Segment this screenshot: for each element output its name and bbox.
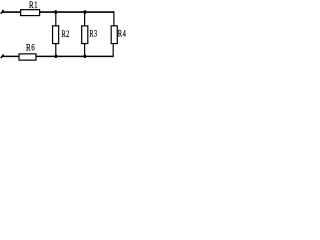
svg-text:R2: R2 [62, 29, 70, 40]
svg-text:R6: R6 [26, 42, 35, 52]
svg-text:R3: R3 [90, 28, 98, 39]
label R2 [62, 29, 70, 40]
label R6 [26, 42, 35, 52]
wire R4 right drop [113, 11, 115, 25]
resistor R3 [82, 26, 88, 44]
wire R3 bottom stub [84, 44, 86, 57]
node junction bottom R3 [83, 54, 86, 58]
node junction top R2 [54, 10, 57, 14]
wire bottom rail [2, 55, 113, 57]
label R3 [90, 28, 98, 39]
wire R3 top stub [84, 12, 86, 26]
wire top rail [2, 11, 114, 13]
node junction top R3 [84, 10, 87, 14]
label R4 [118, 29, 127, 39]
resistor R6 [19, 54, 36, 60]
svg-text:R1: R1 [29, 0, 38, 10]
resistor R4 [111, 26, 117, 44]
label R1 [29, 0, 38, 10]
wire R4 bottom stub [112, 44, 114, 57]
wire R2 bottom stub [55, 44, 57, 57]
resistor R1 [21, 10, 40, 16]
node junction bottom R2 [55, 54, 58, 58]
wire R2 top stub [55, 12, 57, 26]
svg-text:R4: R4 [118, 29, 127, 39]
resistor R2 [53, 26, 59, 44]
terminal top-left [1, 10, 4, 14]
terminal bottom-left [1, 54, 4, 58]
